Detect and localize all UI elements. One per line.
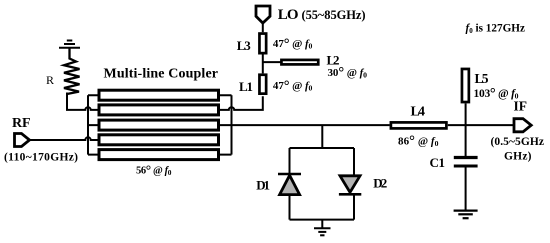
svg-text:LO: LO	[278, 7, 299, 23]
svg-text:L4: L4	[411, 105, 426, 120]
svg-text:L1: L1	[239, 79, 253, 94]
svg-text:RF: RF	[12, 116, 31, 131]
svg-text:D2: D2	[373, 175, 387, 190]
svg-text:f0 is 127GHz: f0 is 127GHz	[466, 22, 525, 35]
svg-text:86° @ f0: 86° @ f0	[398, 134, 439, 150]
svg-text:D1: D1	[256, 177, 270, 192]
svg-text:C1: C1	[430, 155, 446, 170]
svg-text:L5: L5	[475, 71, 489, 86]
svg-text:GHz): GHz)	[504, 150, 532, 162]
svg-text:Multi-line Coupler: Multi-line Coupler	[104, 67, 219, 82]
svg-text:47° @ f0: 47° @ f0	[273, 36, 313, 52]
svg-text:L3: L3	[237, 38, 252, 53]
svg-text:IF: IF	[514, 99, 528, 114]
svg-text:103° @ f0: 103° @ f0	[474, 86, 519, 102]
svg-text:(110~170GHz): (110~170GHz)	[4, 151, 78, 163]
svg-text:47° @ f0: 47° @ f0	[273, 78, 313, 94]
svg-text:(0.5~5GHz: (0.5~5GHz	[491, 136, 545, 148]
svg-text:(55~85GHz): (55~85GHz)	[302, 8, 366, 22]
svg-text:R: R	[46, 73, 54, 87]
svg-text:30° @ f0: 30° @ f0	[328, 65, 368, 81]
svg-text:56° @ f0: 56° @ f0	[136, 163, 172, 178]
